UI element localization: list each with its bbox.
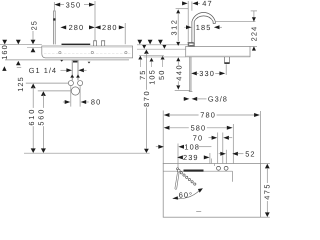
dimension 330 bbox=[191, 71, 197, 75]
dimension 160 bbox=[2, 40, 7, 45]
svg-text:80: 80 bbox=[91, 98, 101, 107]
svg-text:125: 125 bbox=[16, 76, 25, 92]
svg-text:47: 47 bbox=[202, 0, 212, 8]
dimension 75 bbox=[137, 40, 142, 45]
spout nose bbox=[212, 21, 214, 23]
svg-text:610: 610 bbox=[27, 108, 36, 126]
bottom tick (plan) bbox=[196, 211, 201, 213]
dimension 870 bbox=[144, 50, 149, 54]
reference line drain to 560 bbox=[38, 90, 71, 92]
dimension 560 bbox=[41, 91, 46, 96]
svg-text:560: 560 bbox=[37, 108, 46, 126]
dimension 280 left bbox=[60, 25, 66, 29]
tick under 160 bbox=[17, 66, 21, 68]
spout (side): riser bbox=[192, 12, 215, 43]
spout outlet pipe (front) bbox=[54, 11, 56, 45]
G3/8 label bbox=[183, 98, 184, 100]
dimension 780 bbox=[162, 111, 164, 165]
lower arrows of 75/105/50 bbox=[138, 56, 142, 60]
handle 2 (front) bbox=[102, 41, 105, 46]
short ref line bbox=[139, 54, 164, 56]
wall top line (side) bbox=[137, 44, 188, 46]
dimension 52 bbox=[219, 153, 221, 155]
dimension 475 bbox=[260, 163, 269, 165]
side body bbox=[186, 46, 250, 56]
svg-text:350: 350 bbox=[66, 0, 82, 9]
dimension 580 bbox=[164, 126, 170, 130]
G 1 1/4 connection nipple bbox=[72, 60, 78, 80]
wall ref line B' bbox=[137, 48, 186, 50]
washbasin outline (plan) bbox=[163, 164, 260, 218]
centerline with screws bbox=[44, 52, 131, 54]
faucet bar (plan) bbox=[184, 170, 204, 172]
shelf line bbox=[163, 170, 232, 172]
dimension 280 right bbox=[95, 25, 101, 29]
flow arrows bbox=[70, 74, 74, 77]
dimension 80 bbox=[70, 86, 72, 107]
svg-text:108: 108 bbox=[184, 142, 200, 151]
svg-text:870: 870 bbox=[142, 90, 151, 107]
spout curve outer bbox=[192, 12, 215, 21]
faucet body (front) bbox=[42, 46, 133, 58]
svg-text:160: 160 bbox=[0, 44, 9, 60]
screw 3 bbox=[125, 51, 127, 53]
dimension 47 bbox=[187, 1, 189, 42]
supply circle left bbox=[68, 81, 73, 86]
dimension 239 bbox=[177, 155, 183, 159]
aerator tab bbox=[225, 57, 230, 63]
side handle bbox=[188, 43, 193, 47]
tiny marker triangles on wall line B bbox=[60, 60, 63, 62]
svg-text:25: 25 bbox=[30, 20, 39, 30]
drop tube bbox=[189, 57, 193, 92]
body bottom extension line bbox=[144, 56, 186, 58]
svg-text:780: 780 bbox=[200, 111, 216, 120]
svg-text:50: 50 bbox=[157, 70, 166, 80]
spout base flange bbox=[189, 43, 195, 46]
floor line bbox=[24, 152, 150, 154]
svg-text:185: 185 bbox=[196, 23, 212, 32]
pivot extension line bbox=[177, 144, 179, 169]
svg-text:G3/8: G3/8 bbox=[208, 95, 228, 104]
pivot circles (plan) bbox=[177, 168, 179, 170]
dimension 610 bbox=[31, 84, 36, 89]
wall line A2 bbox=[27, 46, 42, 48]
svg-text:280: 280 bbox=[102, 23, 118, 32]
dimension 108 bbox=[156, 146, 159, 148]
handle circle 2 (plan) bbox=[224, 166, 228, 170]
spout bar (front, dark) bbox=[62, 44, 91, 45]
handle 1 (front) bbox=[94, 41, 97, 46]
svg-text:330: 330 bbox=[199, 69, 215, 78]
svg-text:280: 280 bbox=[69, 23, 85, 32]
handle circle 1 (plan) bbox=[217, 166, 221, 170]
svg-text:224: 224 bbox=[250, 26, 259, 42]
dimension 105 bbox=[148, 40, 153, 45]
svg-text:70: 70 bbox=[193, 133, 203, 142]
wall line A bbox=[0, 44, 42, 46]
spout straight position (plan) bbox=[175, 172, 179, 189]
svg-text:475: 475 bbox=[263, 183, 272, 200]
dimension 350 bbox=[56, 4, 93, 6]
dimension 440 bbox=[176, 57, 180, 61]
spout swivelled position beads (plan) bbox=[180, 172, 196, 186]
shelf right edge bbox=[232, 171, 234, 182]
svg-text:G1 1/4: G1 1/4 bbox=[29, 66, 57, 75]
svg-text:52: 52 bbox=[245, 149, 255, 158]
screw 1 bbox=[59, 51, 61, 53]
dimension 224 bbox=[215, 21, 255, 23]
wire: extension above spout outlet bbox=[53, 2, 55, 12]
60 degree swivel arc bbox=[173, 191, 200, 199]
dimension 50 bbox=[158, 40, 163, 45]
spout curve inner bbox=[194, 16, 213, 22]
svg-text:105: 105 bbox=[147, 69, 156, 85]
supply circle right bbox=[78, 81, 83, 86]
dimension 185 bbox=[184, 26, 185, 28]
svg-text:440: 440 bbox=[174, 64, 183, 81]
drain circle bbox=[71, 87, 79, 95]
small down arrows to B' bbox=[142, 45, 146, 49]
svg-text:75: 75 bbox=[138, 70, 147, 80]
wall line B bbox=[5, 59, 129, 61]
wire: extension line right of 350 bbox=[94, 1, 96, 41]
svg-text:580: 580 bbox=[191, 124, 207, 133]
svg-text:312: 312 bbox=[169, 19, 178, 36]
svg-text:60°: 60° bbox=[179, 191, 193, 200]
dimension 312 bbox=[176, 8, 188, 10]
reference line supplies to 610 bbox=[26, 82, 69, 84]
screw 2 bbox=[91, 51, 93, 53]
svg-text:239: 239 bbox=[183, 153, 199, 162]
